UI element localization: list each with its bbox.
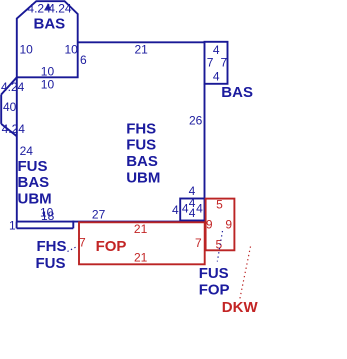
strip right tick: [72, 221, 74, 229]
svg-text:9: 9: [225, 218, 232, 232]
shed box 4x4 (bottom right of parcel): [180, 199, 204, 221]
svg-text:BAS: BAS: [18, 174, 50, 191]
svg-text:6: 6: [80, 53, 87, 67]
svg-text:7: 7: [79, 236, 86, 250]
svg-text:21: 21: [134, 250, 148, 264]
svg-text:FOP: FOP: [199, 281, 230, 298]
svg-text:FUS: FUS: [18, 158, 48, 175]
svg-text:21: 21: [134, 222, 148, 236]
svg-text:4: 4: [196, 201, 203, 215]
strip left edge 1: [16, 222, 18, 229]
svg-text:10: 10: [65, 43, 79, 57]
svg-text:FUS: FUS: [126, 136, 156, 153]
wire main parcel right edge: [204, 84, 206, 199]
annex box 4/7/7/4 (top right): [205, 42, 228, 84]
svg-text:FHS: FHS: [37, 238, 67, 255]
svg-text:4: 4: [213, 70, 220, 84]
svg-text:UBM: UBM: [126, 170, 160, 187]
svg-text:FUS: FUS: [199, 265, 229, 282]
carport FOP outline (red): [79, 222, 205, 264]
svg-text:FUS: FUS: [36, 255, 66, 272]
bay protrusion left edge: [0, 95, 2, 124]
svg-text:10: 10: [20, 43, 34, 57]
dotted red leader to DKW label: [240, 247, 251, 300]
svg-text:4: 4: [172, 203, 179, 217]
svg-text:4.24: 4.24: [2, 122, 26, 136]
svg-text:BAS: BAS: [221, 84, 253, 101]
svg-text:5: 5: [216, 237, 223, 251]
svg-text:18: 18: [41, 209, 55, 223]
svg-text:7: 7: [221, 56, 228, 70]
svg-text:4.24: 4.24: [1, 80, 25, 94]
svg-text:DKW: DKW: [222, 299, 259, 316]
svg-text:4.24: 4.24: [48, 2, 72, 16]
svg-text:7: 7: [207, 56, 214, 70]
svg-text:9: 9: [206, 218, 213, 232]
wire main parcel bottom edge 27: [17, 221, 205, 223]
deck box 5/9/9/5 (red, right): [206, 199, 235, 251]
svg-text:BAS: BAS: [126, 153, 158, 170]
dotted blue leader to FUS/FOP label: [217, 231, 222, 262]
svg-text:26: 26: [189, 114, 203, 128]
svg-text:FOP: FOP: [96, 238, 127, 255]
svg-text:10: 10: [41, 78, 55, 92]
svg-text:FHS: FHS: [126, 120, 156, 137]
svg-text:5: 5: [216, 198, 223, 212]
svg-text:BAS: BAS: [34, 16, 66, 33]
svg-text:4: 4: [213, 43, 220, 57]
dotted leader from FHS to strip: [68, 247, 77, 252]
wire top boundary 21: [78, 41, 205, 43]
svg-text:1: 1: [9, 219, 16, 233]
apex marker triangle: [45, 3, 51, 10]
bay protrusion lower diagonal 4.24: [1, 124, 17, 136]
svg-text:21: 21: [135, 43, 149, 57]
svg-text:27: 27: [92, 207, 106, 221]
wire main parcel left edge: [16, 77, 18, 221]
svg-text:24: 24: [20, 144, 34, 158]
svg-text:4: 4: [189, 206, 196, 220]
svg-text:7: 7: [195, 236, 202, 250]
svg-text:40: 40: [3, 100, 17, 114]
svg-text:10: 10: [41, 65, 55, 79]
strip bottom edge: [17, 227, 74, 229]
bay protrusion upper diagonal 4.24: [1, 77, 17, 94]
building BAS house outline (top-left): [17, 1, 78, 77]
